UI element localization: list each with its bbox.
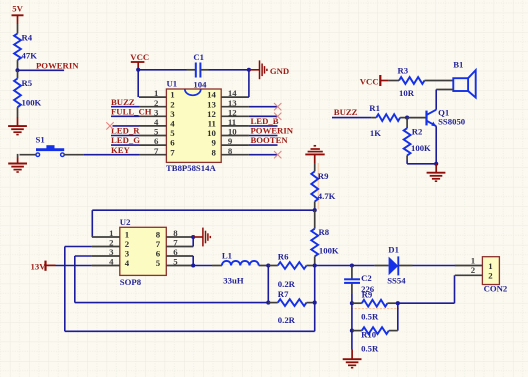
- svg-text:SOP8: SOP8: [120, 277, 142, 287]
- svg-text:VCC: VCC: [360, 76, 379, 86]
- power ground: [193, 228, 210, 247]
- svg-text:1: 1: [170, 90, 174, 100]
- svg-text:47K: 47K: [22, 51, 38, 61]
- svg-text:D1: D1: [388, 245, 399, 255]
- svg-text:L1: L1: [222, 251, 232, 261]
- wire pin4 stub: [113, 125, 140, 127]
- resistor R8: [311, 229, 318, 257]
- resistor R7: [278, 299, 307, 306]
- svg-text:11: 11: [208, 119, 216, 129]
- wire: [75, 302, 268, 304]
- wire BUZZ: [111, 106, 139, 108]
- svg-text:1: 1: [154, 88, 158, 98]
- CON2 pin 2: [455, 274, 483, 276]
- wire: [192, 256, 194, 266]
- wire POWERIN: [18, 69, 65, 71]
- U1 pin 7: [139, 154, 166, 156]
- svg-text:2: 2: [125, 239, 130, 249]
- op-amp U1 body: [166, 89, 221, 162]
- svg-text:2: 2: [471, 265, 476, 275]
- U1 notch: [185, 89, 201, 95]
- svg-text:0.2R: 0.2R: [278, 279, 296, 289]
- diode D1 anode pin: [375, 265, 389, 267]
- U2 pin 1: [92, 236, 120, 238]
- wire: [249, 154, 278, 156]
- wire emitter: [435, 126, 437, 164]
- svg-text:5V: 5V: [12, 3, 23, 13]
- svg-text:0.2R: 0.2R: [278, 315, 296, 325]
- U2 pin 3: [92, 255, 120, 257]
- svg-text:4: 4: [170, 119, 175, 129]
- switch S1: [36, 145, 64, 156]
- wire: [249, 125, 278, 127]
- resistor R4 bottom pin: [17, 60, 19, 70]
- svg-text:2: 2: [109, 238, 114, 248]
- svg-text:2: 2: [488, 270, 493, 280]
- resistor R7 left pin: [268, 302, 278, 304]
- svg-text:9: 9: [211, 138, 216, 148]
- U2 pin 6: [166, 255, 193, 257]
- svg-text:R1: R1: [369, 103, 380, 113]
- resistor R3 left pin: [388, 80, 399, 82]
- capacitor C2 bottom pin: [351, 283, 353, 294]
- ground: [343, 359, 362, 368]
- resistor R9 top pin: [314, 163, 316, 171]
- svg-text:BOOTEN: BOOTEN: [251, 135, 289, 145]
- svg-text:R4: R4: [22, 33, 33, 43]
- svg-text:10R: 10R: [399, 88, 415, 98]
- svg-text:C1: C1: [193, 52, 204, 62]
- svg-text:3: 3: [125, 249, 130, 259]
- U2 pin 2: [92, 246, 120, 248]
- svg-text:6: 6: [154, 136, 159, 146]
- U1 pin 10: [221, 135, 249, 137]
- svg-text:100K: 100K: [319, 246, 339, 256]
- junction C2 node: [350, 263, 354, 267]
- inductor L1 left pin: [212, 265, 222, 267]
- junction VCC node: [136, 68, 140, 72]
- no-ERC marker pin 8: [274, 151, 281, 158]
- resistor R4: [14, 34, 21, 61]
- svg-text:4: 4: [109, 257, 114, 267]
- connector CON2 body: [482, 257, 499, 285]
- svg-text:POWERIN: POWERIN: [36, 60, 79, 70]
- U1 pin 6: [139, 144, 166, 146]
- wire: [193, 265, 212, 267]
- wire: [249, 106, 278, 108]
- power ground GND: [249, 60, 267, 79]
- svg-text:S1: S1: [36, 134, 45, 144]
- svg-text:4: 4: [125, 258, 130, 268]
- wire VCC to pin1: [137, 68, 139, 97]
- junction: [396, 301, 400, 305]
- wire: [74, 256, 76, 303]
- svg-text:6: 6: [170, 138, 175, 148]
- svg-text:100K: 100K: [22, 98, 42, 108]
- resistor R6 left pin: [268, 265, 278, 267]
- svg-text:7: 7: [154, 146, 159, 156]
- wire VCC rail: [138, 69, 186, 71]
- wire: [352, 265, 375, 267]
- power port VCC: [360, 75, 389, 86]
- U1 pin 4: [139, 125, 166, 127]
- svg-text:R2: R2: [412, 126, 423, 136]
- svg-text:12: 12: [228, 107, 237, 117]
- compile-mask line: [317, 163, 319, 210]
- svg-text:R9: R9: [318, 171, 329, 181]
- wire VCC to pin14: [248, 70, 250, 97]
- wire feedback: [92, 209, 314, 211]
- no-ERC marker pin 13: [274, 103, 281, 110]
- speaker B1 lower pin: [436, 89, 453, 91]
- resistor R5: [14, 79, 21, 108]
- resistor R4 top pin: [17, 24, 19, 34]
- wire: [64, 247, 66, 332]
- capacitor C1 right pin: [200, 69, 208, 71]
- svg-text:2: 2: [170, 99, 175, 109]
- svg-text:VCC: VCC: [130, 52, 149, 62]
- svg-text:8: 8: [211, 147, 216, 157]
- ground (inverted): [305, 146, 324, 163]
- wire KEY: [84, 154, 139, 156]
- transistor Q1: [427, 110, 437, 127]
- no-ERC marker pin 12: [274, 113, 281, 120]
- resistor R7 right pin: [307, 302, 315, 304]
- svg-text:12: 12: [207, 109, 216, 119]
- wire: [406, 161, 408, 164]
- capacitor C1: [196, 63, 201, 78]
- svg-text:BUZZ: BUZZ: [111, 97, 135, 107]
- wire LED_R: [111, 135, 139, 137]
- svg-text:B1: B1: [453, 60, 463, 70]
- svg-text:KEY: KEY: [111, 145, 131, 155]
- svg-text:BUZZ: BUZZ: [334, 107, 358, 117]
- resistor R9 (0.5R): [362, 300, 388, 307]
- resistor R3 right pin / speaker pin: [425, 80, 454, 82]
- svg-text:SS8050: SS8050: [438, 116, 466, 126]
- wire: [91, 210, 93, 237]
- wire bottom rail: [65, 330, 315, 332]
- junction: [266, 263, 270, 267]
- svg-text:1K: 1K: [370, 128, 381, 138]
- IC U2 body: [120, 227, 167, 275]
- junction POWERIN node: [15, 68, 19, 72]
- svg-text:100K: 100K: [411, 143, 431, 153]
- svg-text:8: 8: [173, 228, 178, 238]
- resistor R1 right pin: [400, 117, 407, 119]
- switch S1 left pin: [20, 154, 37, 156]
- svg-text:33uH: 33uH: [223, 275, 244, 285]
- junction: [266, 301, 270, 305]
- ground stem: [435, 164, 437, 173]
- U1 pin 14: [221, 96, 249, 98]
- junction: [313, 263, 317, 267]
- ground: [8, 164, 27, 173]
- wire: [315, 265, 352, 267]
- resistor R10 left pin: [352, 330, 362, 332]
- svg-text:U2: U2: [120, 217, 131, 227]
- wire: [249, 115, 278, 117]
- resistor R5 bottom pin: [17, 107, 19, 117]
- svg-text:TB8P58S14A: TB8P58S14A: [166, 163, 216, 173]
- U2 pin 7: [166, 246, 193, 248]
- svg-text:R3: R3: [398, 65, 409, 75]
- U1 pin 5: [139, 135, 166, 137]
- svg-text:7: 7: [156, 239, 161, 249]
- junction pins 6-5: [191, 263, 195, 267]
- resistor R9 left pin: [352, 302, 362, 304]
- svg-text:3: 3: [109, 247, 114, 257]
- speaker B1: [453, 70, 475, 98]
- resistor R3: [399, 77, 425, 84]
- wire to ground: [17, 154, 19, 158]
- wire: [75, 255, 92, 257]
- wire: [398, 302, 455, 304]
- wire: [397, 303, 399, 330]
- capacitor C1 left pin: [187, 69, 196, 71]
- resistor R2: [404, 128, 411, 155]
- U1 pin 8: [221, 154, 249, 156]
- wire FULL_CH: [111, 115, 139, 117]
- svg-text:1: 1: [125, 230, 129, 240]
- svg-text:4: 4: [154, 117, 159, 127]
- wire: [249, 135, 278, 137]
- svg-text:GND: GND: [270, 66, 289, 76]
- svg-text:U1: U1: [167, 79, 178, 89]
- wire: [267, 266, 269, 303]
- capacitor C2 top pin: [351, 266, 353, 280]
- svg-text:LED_R: LED_R: [111, 126, 140, 136]
- svg-text:FULL_CH: FULL_CH: [111, 106, 152, 116]
- U1 pin 2: [139, 106, 166, 108]
- svg-text:11: 11: [228, 117, 236, 127]
- wire: [314, 266, 316, 332]
- resistor R8 top pin: [314, 210, 316, 229]
- junction base node: [405, 116, 409, 120]
- svg-text:5: 5: [170, 128, 175, 138]
- svg-text:6: 6: [156, 249, 161, 259]
- svg-text:3: 3: [154, 107, 159, 117]
- junction pins 8-7: [191, 235, 195, 239]
- U2 pin 4: [92, 265, 120, 267]
- svg-text:4.7K: 4.7K: [318, 191, 336, 201]
- resistor R8 bottom pin: [314, 256, 316, 265]
- wire: [192, 237, 194, 247]
- svg-text:10: 10: [228, 127, 237, 137]
- svg-text:5: 5: [154, 127, 159, 137]
- wire BUZZ: [332, 117, 371, 119]
- svg-text:5: 5: [156, 258, 161, 268]
- wire: [209, 69, 249, 71]
- wire: [65, 246, 92, 248]
- svg-text:8: 8: [228, 146, 233, 156]
- U1 pin 11: [221, 125, 249, 127]
- power port 13V: [31, 261, 56, 272]
- U1 pin 1: [139, 96, 166, 98]
- resistor R9: [311, 171, 318, 201]
- svg-text:C2: C2: [361, 273, 372, 283]
- diode D1 cathode pin: [398, 265, 412, 267]
- U1 pin 9: [221, 144, 249, 146]
- junction: [350, 301, 354, 305]
- svg-text:104: 104: [193, 80, 207, 90]
- svg-text:6: 6: [173, 247, 178, 257]
- wire: [351, 303, 353, 330]
- svg-text:5: 5: [173, 257, 178, 267]
- svg-text:14: 14: [207, 90, 216, 100]
- inductor L1 right pin: [259, 265, 269, 267]
- wire to CON2: [413, 265, 456, 267]
- svg-text:0.5R: 0.5R: [361, 312, 379, 322]
- svg-text:7: 7: [170, 147, 175, 157]
- svg-text:LED_B: LED_B: [251, 116, 279, 126]
- no-ERC marker pin 4: [106, 122, 113, 129]
- svg-text:POWERIN: POWERIN: [251, 126, 294, 136]
- power port VCC: [130, 52, 149, 69]
- resistor R10 right pin: [389, 330, 398, 332]
- wire: [351, 294, 353, 303]
- svg-text:10: 10: [207, 128, 216, 138]
- resistor R6 right pin: [307, 265, 315, 267]
- resistor R1 left pin: [371, 117, 376, 119]
- svg-text:R9: R9: [362, 289, 373, 299]
- ground: [8, 126, 27, 135]
- svg-text:7: 7: [173, 238, 178, 248]
- svg-text:1: 1: [109, 228, 113, 238]
- junction: [350, 329, 354, 333]
- capacitor C2: [344, 279, 360, 283]
- svg-text:R8: R8: [319, 227, 330, 237]
- svg-text:R6: R6: [278, 252, 289, 262]
- power port 5V: [12, 3, 24, 24]
- svg-text:8: 8: [156, 230, 161, 240]
- compile-mask squiggle: [351, 308, 399, 310]
- resistor R5 top pin: [17, 70, 19, 78]
- svg-text:9: 9: [228, 136, 233, 146]
- U2 pin 5: [166, 265, 193, 267]
- wire: [454, 275, 456, 303]
- junction emitter-ground: [434, 162, 438, 166]
- svg-text:14: 14: [228, 88, 237, 98]
- resistor R2 bottom pin: [406, 155, 408, 160]
- junction GND node: [247, 68, 251, 72]
- wire: [407, 163, 436, 165]
- resistor R2 top pin: [406, 118, 408, 129]
- CON2 pin 1: [455, 265, 483, 267]
- svg-text:13: 13: [228, 98, 237, 108]
- svg-text:3: 3: [170, 109, 175, 119]
- resistor R9 bottom pin: [314, 202, 316, 211]
- resistor R1: [376, 114, 400, 121]
- svg-text:CON2: CON2: [484, 284, 508, 294]
- transistor Q1 base pin: [407, 117, 426, 119]
- ground stem: [17, 117, 19, 126]
- svg-text:R10: R10: [361, 330, 377, 340]
- wire 13V: [56, 265, 92, 267]
- inductor L1: [222, 261, 259, 266]
- U1 pin 12: [221, 115, 249, 117]
- svg-text:SS54: SS54: [387, 276, 406, 286]
- U1 pin 13: [221, 106, 249, 108]
- svg-text:R5: R5: [22, 78, 33, 88]
- resistor R10: [362, 327, 389, 334]
- U2 pin 8: [166, 236, 193, 238]
- svg-text:R7: R7: [278, 289, 289, 299]
- resistor R6: [278, 262, 307, 269]
- ground: [427, 173, 446, 182]
- wire: [249, 144, 278, 146]
- ground stem: [351, 331, 353, 350]
- switch S1 right pin: [64, 154, 83, 156]
- svg-text:13: 13: [207, 99, 216, 109]
- svg-text:0.5R: 0.5R: [361, 344, 379, 354]
- svg-text:LED_G: LED_G: [111, 135, 140, 145]
- junction: [313, 301, 317, 305]
- resistor R9 right pin: [387, 302, 397, 304]
- wire collector: [435, 90, 437, 110]
- U1 pin 3: [139, 115, 166, 117]
- diode D1: [389, 256, 399, 275]
- junction node A: [313, 208, 317, 212]
- svg-text:2: 2: [154, 98, 159, 108]
- svg-text:13V: 13V: [31, 261, 47, 271]
- wire LED_G: [111, 144, 139, 146]
